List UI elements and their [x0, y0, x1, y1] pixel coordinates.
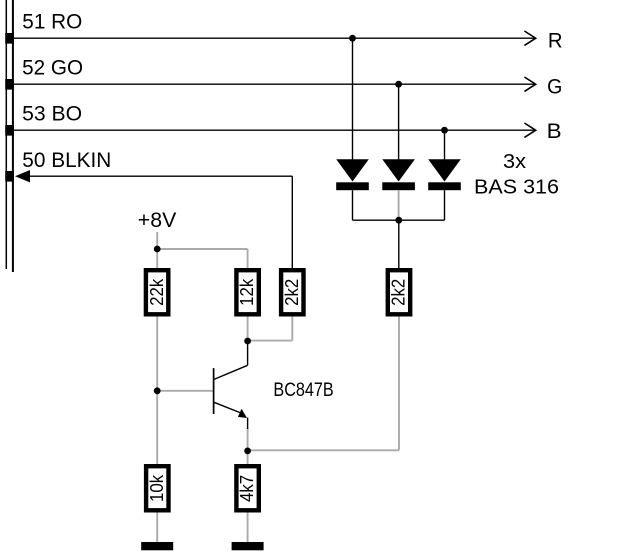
- transistor BC847B: [214, 341, 248, 429]
- wire BLKIN horizontal: [29, 175, 292, 177]
- wire emitter node to 4k7 top: [247, 451, 249, 465]
- svg-text:53 BO: 53 BO: [22, 103, 82, 126]
- wire +8V node to 22k top: [156, 249, 158, 269]
- diode D2 BAS 316: [382, 159, 415, 190]
- node +8V: [154, 246, 161, 253]
- svg-text:12k: 12k: [236, 278, 257, 306]
- connector edge thin line: [5, 0, 7, 269]
- wire G dot to diode D2: [398, 84, 400, 160]
- wire D1 cathode stub: [352, 190, 354, 220]
- connector edge thick line: [12, 0, 14, 272]
- wire right column up to 2k2 right bottom: [398, 316, 400, 451]
- svg-text:BC847B: BC847B: [273, 380, 333, 401]
- svg-text:52 GO: 52 GO: [22, 57, 83, 80]
- connector pad pin 51: [5, 33, 14, 44]
- wire B dot to diode D3: [444, 130, 446, 160]
- svg-text:R: R: [548, 30, 563, 53]
- wire 4k7 bottom to ground: [247, 512, 249, 544]
- resistor 4k7: [236, 466, 259, 510]
- svg-text:BAS 316: BAS 316: [474, 177, 559, 199]
- wire 22k bottom through base node to 10k top: [156, 316, 158, 466]
- node emitter: [244, 448, 251, 455]
- svg-text:B: B: [547, 120, 562, 143]
- arrow BLKIN input: [15, 170, 30, 182]
- wire G line: [14, 83, 536, 85]
- connector pad pin 50: [5, 171, 14, 182]
- resistor 10k: [146, 466, 169, 510]
- resistor 2k2 right: [388, 270, 411, 314]
- node base: [154, 387, 161, 394]
- resistor 2k2 left: [281, 270, 304, 314]
- diode D3 BAS 316: [428, 159, 461, 190]
- arrow G output: [524, 77, 535, 91]
- wire R line: [14, 37, 536, 39]
- ground symbol right: [232, 542, 264, 550]
- svg-text:4k7: 4k7: [236, 475, 257, 502]
- wire diode common horizontal: [353, 219, 445, 221]
- wire down to 12k top: [247, 249, 249, 269]
- svg-text:51 RO: 51 RO: [22, 10, 82, 33]
- resistor 22k: [146, 270, 168, 314]
- node diode common: [395, 217, 402, 224]
- diode D1 BAS 316: [336, 159, 369, 190]
- node G line junction: [395, 81, 402, 88]
- svg-text:22k: 22k: [146, 278, 167, 306]
- wire common node to 2k2 right top: [398, 220, 400, 269]
- arrow B output: [524, 123, 535, 137]
- wire B line: [14, 129, 536, 131]
- wire +8V stub: [156, 232, 158, 249]
- svg-text:2k2: 2k2: [388, 279, 409, 306]
- wire D3 cathode stub: [444, 190, 446, 220]
- wire BLKIN vertical to 2k2 left: [291, 176, 293, 269]
- connector pad pin 53: [5, 125, 14, 136]
- svg-text:3x: 3x: [503, 151, 526, 173]
- svg-text:50 BLKIN: 50 BLKIN: [22, 149, 111, 172]
- wire R dot to diode D1: [352, 38, 354, 160]
- svg-text:G: G: [547, 75, 562, 98]
- wire base node to transistor base: [157, 390, 213, 392]
- wire 10k bottom to ground: [156, 512, 158, 544]
- node R line junction: [349, 35, 356, 42]
- svg-text:2k2: 2k2: [281, 279, 302, 306]
- ground symbol left: [141, 542, 173, 550]
- wire emitter to emitter node: [247, 428, 249, 451]
- node B line junction: [441, 127, 448, 134]
- wire 2k2 left elbow to collector node: [248, 340, 293, 342]
- connector pad pin 52: [5, 79, 14, 90]
- wire 2k2 left bottom down: [291, 316, 293, 341]
- wire emitter node to right column: [248, 449, 399, 451]
- node collector: [244, 338, 251, 345]
- svg-text:+8V: +8V: [138, 209, 177, 232]
- wire 12k bottom to collector node: [247, 316, 249, 342]
- arrow R output: [524, 31, 535, 45]
- svg-text:10k: 10k: [146, 474, 167, 502]
- resistor 12k: [236, 270, 259, 314]
- wire D2 cathode stub net: [398, 190, 400, 220]
- wire +8V node to 12k column: [157, 248, 247, 250]
